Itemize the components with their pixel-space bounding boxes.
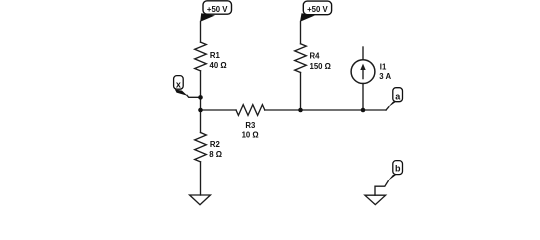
svg-text:R4: R4 bbox=[310, 51, 321, 60]
svg-text:3 A: 3 A bbox=[379, 72, 391, 81]
resistor R4 bbox=[295, 44, 307, 73]
ground GND2 bbox=[365, 195, 386, 204]
junction I1-main bbox=[361, 108, 366, 113]
wire main horizontal left part bbox=[201, 109, 237, 111]
wire rail1 top lead bbox=[200, 22, 202, 43]
label box +50V #1 bbox=[203, 1, 232, 14]
svg-text:40 Ω: 40 Ω bbox=[210, 61, 227, 70]
node box a bbox=[393, 88, 403, 102]
resistor R2 bbox=[195, 133, 207, 162]
svg-text:+50 V: +50 V bbox=[207, 5, 228, 14]
svg-text:150 Ω: 150 Ω bbox=[310, 62, 331, 71]
svg-text:R3: R3 bbox=[245, 121, 256, 130]
wire R1 bottom to node x junction and R3 junction bbox=[200, 71, 202, 133]
resistor R3 bbox=[236, 105, 265, 116]
svg-text:R2: R2 bbox=[210, 140, 221, 149]
wire R4 bottom to main node bbox=[300, 73, 302, 111]
wire I1 bottom bbox=[362, 84, 364, 111]
resistor R1 bbox=[195, 42, 207, 71]
junction main-left bbox=[198, 108, 203, 113]
flag tail VCC1 bbox=[200, 13, 215, 21]
flag tail node a bbox=[388, 101, 397, 107]
junction R4-main bbox=[298, 108, 303, 113]
wire main horizontal right part bbox=[265, 109, 386, 111]
svg-text:x: x bbox=[176, 80, 181, 90]
current source I1 bbox=[362, 47, 364, 60]
wire R2 bottom to ground bbox=[200, 162, 202, 195]
label box +50V #2 bbox=[303, 1, 331, 15]
ground GND1 bbox=[190, 195, 211, 205]
wire x stub bbox=[187, 95, 201, 97]
flag tail node x bbox=[175, 90, 188, 96]
svg-text:+50 V: +50 V bbox=[307, 5, 328, 14]
wire a diagonal bbox=[386, 107, 389, 110]
node box b bbox=[393, 161, 403, 175]
wire rail2 top lead bbox=[300, 22, 302, 44]
flag tail VCC2 bbox=[300, 13, 315, 21]
node box x bbox=[174, 76, 184, 90]
svg-text:10 Ω: 10 Ω bbox=[242, 130, 259, 139]
wire b to ground bbox=[375, 181, 388, 195]
svg-text:R1: R1 bbox=[210, 51, 221, 60]
svg-text:I1: I1 bbox=[380, 62, 387, 71]
flag tail node b bbox=[388, 175, 397, 182]
svg-text:b: b bbox=[395, 163, 401, 173]
junction x-stub bbox=[198, 95, 203, 100]
svg-text:8 Ω: 8 Ω bbox=[209, 150, 222, 159]
